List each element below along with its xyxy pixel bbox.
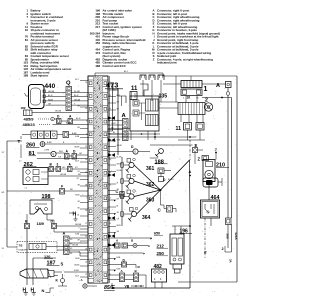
svg-text:SB: SB (77, 127, 79, 129)
svg-text:22: 22 (85, 274, 87, 276)
svg-text:14: 14 (85, 210, 87, 212)
svg-text:Q: Q (66, 81, 71, 87)
svg-text:5: 5 (109, 121, 110, 123)
svg-text:SB: SB (117, 189, 119, 191)
svg-text:BL-R: BL-R (48, 95, 53, 97)
svg-text:362: 362 (146, 182, 155, 188)
svg-text:SB-W: SB-W (75, 258, 80, 260)
svg-text:6: 6 (109, 261, 110, 263)
svg-text:1: 1 (204, 86, 208, 93)
svg-text:135: 135 (159, 94, 168, 100)
svg-text:85: 85 (70, 248, 72, 250)
svg-text:24: 24 (109, 172, 111, 174)
svg-text:Q: Q (52, 152, 54, 156)
svg-text:BL: BL (117, 205, 119, 207)
svg-text:488: 488 (95, 64, 100, 68)
svg-text:Z: Z (198, 157, 201, 162)
svg-text:U: U (134, 150, 136, 154)
svg-text:650: 650 (154, 232, 160, 236)
svg-text:GN-GR: GN-GR (117, 145, 123, 147)
svg-text:210: 210 (216, 163, 225, 169)
svg-text:VB: VB (125, 285, 130, 289)
svg-text:440: 440 (45, 83, 56, 90)
svg-text:18/9: 18/9 (37, 222, 44, 226)
svg-text:GR-SB: GR-SB (55, 111, 62, 113)
svg-text:GR-SB: GR-SB (75, 224, 82, 226)
svg-text:N: N (42, 288, 45, 293)
svg-text:187: 187 (47, 261, 56, 267)
svg-text:31: 31 (85, 108, 87, 110)
svg-text:81: 81 (25, 38, 29, 42)
svg-text:16: 16 (85, 82, 87, 84)
svg-text:182: 182 (21, 106, 26, 110)
svg-text:G: G (52, 119, 54, 121)
svg-text:361: 361 (146, 166, 155, 172)
svg-text:BL-R: BL-R (74, 95, 79, 97)
svg-text:34: 34 (109, 159, 111, 161)
svg-text:81: 81 (29, 151, 36, 157)
svg-text:VO-SB: VO-SB (117, 170, 122, 172)
svg-text:13: 13 (85, 236, 87, 238)
svg-text:SB: SB (117, 108, 119, 110)
svg-text:Y-GR: Y-GR (111, 123, 116, 125)
svg-text:GR-SB: GR-SB (74, 99, 81, 101)
svg-text:12: 12 (109, 185, 111, 187)
svg-text:A: A (189, 170, 192, 174)
svg-text:217: 217 (95, 25, 100, 29)
svg-text:188: 188 (155, 160, 164, 166)
svg-text:BL: BL (77, 214, 79, 216)
svg-text:485/23: 485/23 (23, 122, 36, 127)
svg-text:7: 7 (86, 197, 87, 199)
svg-text:BL-GR: BL-GR (117, 156, 123, 158)
svg-text:17: 17 (85, 223, 87, 225)
svg-text:B: B (78, 251, 79, 253)
svg-text:R-SB: R-SB (75, 233, 79, 235)
svg-text:B: B (25, 220, 28, 224)
svg-text:35: 35 (85, 172, 87, 174)
svg-text:Z: Z (153, 57, 155, 61)
svg-text:85/E: 85/E (104, 285, 115, 291)
svg-text:R-SB: R-SB (74, 270, 79, 272)
svg-text:H: H (73, 212, 77, 218)
svg-text:24: 24 (85, 261, 87, 263)
svg-text:485/9: 485/9 (24, 117, 35, 122)
svg-text:A: A (63, 232, 66, 236)
svg-text:83: 83 (25, 48, 29, 52)
svg-text:16: 16 (187, 96, 191, 100)
svg-text:1 2: 1 2 (19, 161, 21, 163)
svg-text:BL-GR: BL-GR (168, 179, 174, 181)
svg-text:GR-SB: GR-SB (74, 146, 79, 148)
svg-text:SL-GR: SL-GR (74, 91, 80, 93)
svg-text:→A: →A (78, 278, 83, 282)
svg-text:GR-SB: GR-SB (48, 91, 55, 93)
svg-text:198: 198 (42, 194, 51, 200)
svg-text:Control unit ECC: Control unit ECC (103, 64, 127, 68)
svg-text:260: 260 (26, 143, 35, 149)
svg-text:452: 452 (95, 41, 100, 45)
svg-text:GR-SB: GR-SB (72, 245, 79, 247)
svg-text:2: 2 (86, 133, 87, 135)
svg-text:7/2: 7/2 (19, 244, 23, 248)
svg-text:188: 188 (23, 74, 28, 78)
svg-text:M: M (138, 265, 140, 269)
svg-text:364: 364 (142, 215, 151, 221)
svg-text:GR-SB: GR-SB (117, 163, 122, 165)
svg-text:26: 26 (109, 133, 111, 135)
svg-text:3: 3 (57, 163, 59, 167)
svg-text:SB-W: SB-W (48, 99, 53, 101)
svg-text:BL-R: BL-R (76, 118, 81, 120)
svg-text:420A: 420A (234, 232, 238, 240)
svg-text:W-SB: W-SB (75, 194, 79, 196)
svg-text:20: 20 (85, 249, 87, 251)
svg-text:18: 18 (109, 223, 111, 225)
svg-text:366: 366 (226, 233, 230, 238)
svg-text:1 2: 1 2 (25, 188, 27, 190)
svg-text:J: J (215, 148, 217, 152)
svg-text:SB-W: SB-W (117, 225, 122, 227)
svg-text:USA/JPN: USA/JPN (19, 249, 29, 252)
svg-text:B-SB: B-SB (47, 142, 52, 144)
svg-text:R-SB: R-SB (117, 268, 121, 270)
svg-text:W-R: W-R (59, 151, 63, 153)
svg-text:B-SB: B-SB (75, 136, 79, 138)
svg-text:10: 10 (109, 108, 111, 110)
svg-text:Start injector: Start injector (31, 74, 50, 78)
svg-text:Indicated joint: Indicated joint (157, 61, 177, 65)
svg-text:6: 6 (86, 121, 87, 123)
svg-text:19: 19 (109, 249, 111, 251)
svg-text:B-SB: B-SB (72, 133, 77, 135)
svg-text:1 OHM: 1 OHM (44, 149, 50, 151)
svg-text:2: 2 (222, 247, 224, 251)
svg-text:16: 16 (25, 28, 29, 32)
svg-text:473: 473 (106, 81, 118, 90)
svg-text:3A: 3A (229, 259, 233, 263)
svg-text:120: 120 (44, 255, 50, 259)
svg-text:15: 15 (85, 159, 87, 161)
svg-text:18: 18 (85, 185, 87, 187)
svg-text:87: 87 (70, 244, 72, 246)
svg-text:30: 30 (70, 239, 72, 241)
svg-text:SB: SB (77, 207, 79, 209)
svg-text:86: 86 (70, 253, 72, 255)
svg-text:S: S (61, 262, 64, 267)
svg-text:11: 11 (131, 86, 138, 92)
svg-text:GR-SB: GR-SB (60, 174, 67, 176)
svg-text:B-SB: B-SB (117, 257, 121, 259)
svg-text:T: T (18, 139, 21, 144)
svg-text:473: 473 (95, 51, 100, 55)
svg-text:GR-SB: GR-SB (74, 264, 79, 266)
svg-text:BL-Y: BL-Y (124, 71, 129, 73)
svg-text:2: 2 (109, 210, 110, 212)
svg-text:250: 250 (157, 251, 165, 256)
svg-text:212: 212 (157, 244, 165, 249)
